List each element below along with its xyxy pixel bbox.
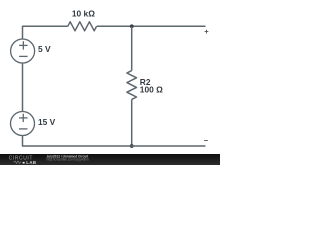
svg-text:10 kΩ: 10 kΩ	[72, 9, 95, 19]
svg-text:http://circuitlab.com/c/pg4dbm: http://circuitlab.com/c/pg4dbm	[47, 157, 90, 161]
footer: black branding bar	[0, 154, 220, 165]
svg-text:+: +	[204, 27, 209, 36]
voltage source V1 (5 V) circle	[11, 39, 35, 63]
wire: bottom rail from V2 corner to right output	[23, 136, 206, 146]
V1 plus sign	[19, 41, 28, 49]
svg-text:−: −	[204, 136, 209, 145]
node: bottom junction dot	[130, 144, 134, 148]
wire: R2 bottom to bottom rail	[131, 99, 133, 146]
logo: CIRCUIT LAB wordmark	[9, 155, 37, 164]
wire: V1 top lead up to top-left corner then right to R1	[23, 26, 68, 39]
V1 minus sign	[19, 55, 28, 57]
wire: V1 bottom to V2 top	[22, 63, 24, 112]
V2 minus sign	[19, 128, 28, 130]
voltage source V2 (15 V) circle	[11, 112, 35, 136]
wire: top junction down to R2	[131, 26, 133, 70]
V2 plus sign	[19, 114, 28, 122]
svg-text:5 V: 5 V	[38, 44, 51, 54]
svg-text:LAB: LAB	[26, 160, 36, 165]
resistor R2 zigzag (vertical)	[127, 71, 137, 100]
wire: R1 right terminal to right output terminal (top rail)	[97, 25, 206, 27]
resistor R1 (10 kΩ) zigzag	[68, 22, 97, 31]
node: top junction dot	[130, 24, 134, 28]
svg-text:100 Ω: 100 Ω	[140, 85, 163, 95]
svg-text:15 V: 15 V	[38, 117, 56, 127]
